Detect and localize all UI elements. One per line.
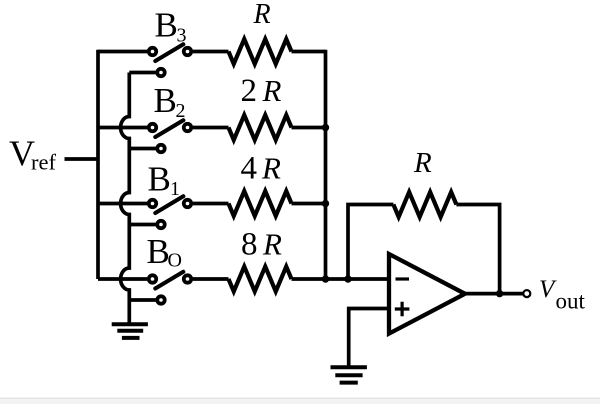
- switch B0 pole contact: [184, 275, 191, 282]
- switch B0 upper throw contact: [149, 275, 156, 282]
- switch B3 pole wire: [193, 50, 229, 54]
- label Vref: [9, 133, 56, 175]
- svg-text:R: R: [413, 147, 432, 179]
- label B0: [147, 232, 182, 272]
- switch B2 pole contact: [184, 124, 191, 131]
- wire summing bus to op-amp inverting input: [326, 277, 390, 281]
- label 4R: [241, 151, 282, 187]
- switch B2 pole wire: [193, 126, 229, 130]
- node Vref bus: [96, 50, 100, 279]
- junction dot feedback/output: [496, 290, 503, 297]
- switch B0 lower throw wire: [129, 298, 156, 302]
- switch B1 arm: [155, 196, 183, 213]
- ground (op-amp + input): [331, 367, 367, 382]
- switch B2 upper throw contact: [149, 124, 156, 131]
- switch B0 pole wire: [193, 277, 229, 281]
- switch B2 lower throw contact: [157, 145, 164, 152]
- wire 2R to summing bus: [292, 126, 326, 130]
- label R (feedback resistor): [413, 147, 432, 179]
- switch B3 arm: [155, 44, 183, 61]
- svg-text:B: B: [148, 160, 171, 199]
- wire feedback right vertical: [456, 205, 499, 294]
- wire op-amp output: [463, 292, 523, 296]
- label R (top resistor): [253, 0, 271, 30]
- junction dot 2R/bus: [322, 124, 329, 131]
- svg-text:4: 4: [241, 151, 258, 187]
- label Vout: [539, 276, 586, 314]
- switch B2 lower throw wire: [129, 147, 156, 151]
- svg-text:B: B: [154, 81, 177, 120]
- svg-text:ref: ref: [31, 150, 56, 175]
- switch B0 wire from Vref bus: [98, 277, 147, 281]
- junction dot feedback tap: [344, 275, 351, 282]
- ground (left, switch bus): [112, 324, 148, 338]
- terminal Vout: [523, 290, 530, 297]
- switch B1 pole wire: [193, 202, 229, 206]
- svg-text:B: B: [147, 232, 170, 271]
- wire Vref lead: [65, 157, 99, 161]
- resistor 2R: [229, 115, 292, 140]
- op-amp U1: [389, 254, 465, 334]
- label B3: [155, 6, 187, 47]
- switch B1 wire from Vref bus: [98, 202, 147, 206]
- switch B1 lower throw contact: [157, 221, 164, 228]
- svg-text:out: out: [556, 289, 586, 314]
- svg-text:V: V: [539, 276, 557, 303]
- switch B3 upper throw contact: [149, 48, 156, 55]
- switch B1 lower throw wire: [129, 223, 156, 227]
- switch B2 wire from Vref bus: [98, 126, 147, 130]
- svg-text:R: R: [262, 73, 282, 108]
- svg-text:1: 1: [170, 178, 180, 200]
- bottom separator line: [0, 398, 600, 399]
- switch B3 lower throw wire: [129, 71, 156, 75]
- resistor R: [229, 39, 292, 64]
- switch B1 pole contact: [184, 200, 191, 207]
- wire 8R to summing bus: [292, 277, 326, 281]
- label B1: [148, 160, 181, 201]
- op-amp plus sign: [395, 302, 410, 317]
- switch B3 wire from Vref bus: [98, 50, 147, 54]
- svg-text:B: B: [155, 6, 178, 45]
- resistor 4R: [229, 191, 292, 216]
- svg-text:8: 8: [241, 227, 258, 263]
- junction dot 4R/bus: [322, 200, 329, 207]
- switch B3 pole contact: [184, 48, 191, 55]
- svg-text:2: 2: [241, 73, 258, 109]
- wire non-inverting input to ground: [349, 309, 389, 366]
- svg-text:O: O: [168, 250, 182, 272]
- label 8R: [241, 227, 282, 263]
- switch B0 lower throw contact: [157, 296, 164, 303]
- node ground bus (with hops): [121, 73, 130, 323]
- node summing bus: [324, 50, 328, 279]
- resistor R (feedback): [393, 192, 456, 217]
- switch B1 upper throw contact: [149, 200, 156, 207]
- label 2R: [241, 73, 282, 109]
- wire R to summing bus: [292, 50, 326, 54]
- svg-text:R: R: [253, 0, 271, 30]
- wire 4R to summing bus: [292, 202, 326, 206]
- switch B3 lower throw contact: [157, 69, 164, 76]
- resistor 8R: [229, 267, 292, 292]
- junction dot 8R/bus: [322, 275, 329, 282]
- svg-text:R: R: [261, 151, 281, 186]
- switch B0 arm: [155, 272, 183, 289]
- switch B2 arm: [155, 120, 183, 137]
- label B2: [154, 81, 186, 122]
- op-amp minus sign: [396, 277, 410, 280]
- wire feedback left vertical: [348, 205, 393, 280]
- svg-text:R: R: [262, 227, 282, 262]
